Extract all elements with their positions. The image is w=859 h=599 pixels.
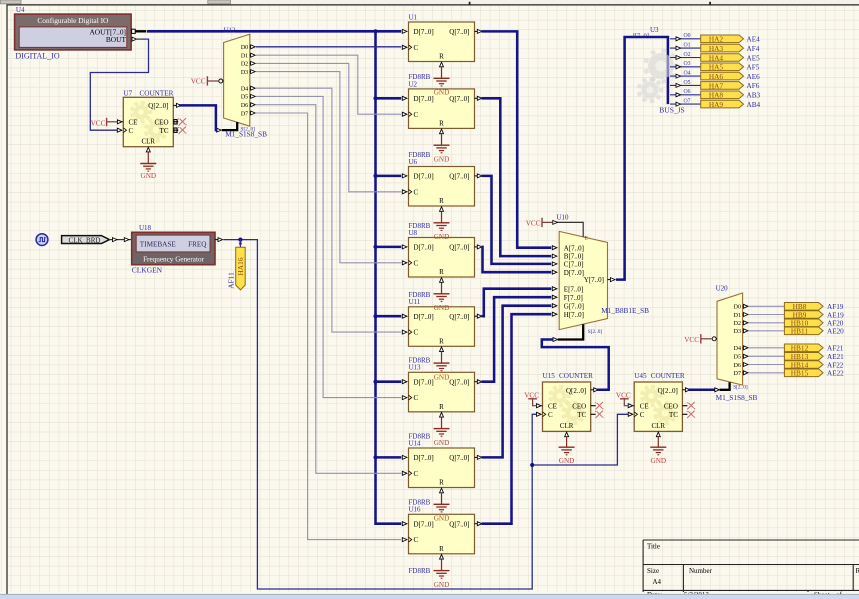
pin D[7..0] of U8 [402,245,407,249]
svg-text:D5: D5 [241,95,248,101]
mux U10 (M1_B8B1E_SB) body [559,231,607,329]
designator U14 [409,439,422,447]
svg-text:CEO: CEO [664,402,678,410]
designator U45 COUNTER [634,372,685,380]
svg-text:AF21: AF21 [827,345,844,353]
pin O5 of U3 [670,80,701,88]
flip-flop U13 (FD8RB) body [409,372,475,412]
pin CLR of U45 [651,422,665,437]
svg-text:R: R [439,338,444,346]
bus branch to U14 D [376,456,402,459]
wire U20 D6 to port HB14 [749,364,785,366]
bus U45 Q to U20 S [688,389,714,392]
pin Q[7..0] of U1 [475,29,482,33]
port CLK_BRD [62,236,110,245]
pin R of U13 [440,413,444,418]
pin S[2..0] of U12 [217,122,256,132]
pin C[7..0] of U10 [552,261,583,269]
svg-text:COUNTER: COUNTER [651,372,685,380]
bus U11 Q to U10 E [482,289,552,317]
pin O4 of U3 [670,71,701,79]
pin D6 of U12 [241,103,255,109]
svg-text:CE: CE [129,118,138,126]
svg-text:C: C [414,111,419,119]
svg-text:R: R [439,545,444,553]
svg-text:D[7..0]: D[7..0] [564,269,584,277]
net label AE5 [747,54,761,62]
junction at FREQ/HA16 [238,238,242,242]
svg-text:CLK_BRD: CLK_BRD [69,236,101,244]
svg-text:C: C [414,188,419,196]
sheet-symbol U18 (Frequency Generator) [132,232,215,264]
svg-text:VCC: VCC [526,219,541,227]
label FD8RB above U13 [409,357,431,365]
designator U1 [409,13,418,21]
pin D0 of U12 [241,45,255,51]
net label AF5 [747,64,760,72]
pin D5 of U12 [241,94,255,100]
flip-flop U8 (FD8RB) body [409,238,475,278]
pin R of U14 [440,488,444,493]
power VCC for U20 [684,334,712,344]
svg-text:AF11: AF11 [227,272,236,289]
svg-text:AE22: AE22 [827,370,844,378]
net label AB4 [747,101,761,109]
junction at U13 D branch [373,380,377,384]
pin A[7..0] of U10 [552,244,584,252]
net label AF20 [827,320,844,328]
pin O0 of U3 [670,33,701,41]
svg-text:Y[7..0]: Y[7..0] [584,276,604,284]
svg-text:HA4: HA4 [709,53,724,62]
clock source icon [36,234,48,246]
svg-text:HA7: HA7 [709,81,724,90]
pin R of U11 [440,347,444,352]
bus branch to U13 D [376,380,402,383]
pin E of U12 (enable) [219,79,224,83]
svg-text:FD8RB: FD8RB [409,222,431,230]
pin C of U11 [402,330,411,335]
svg-text:CE: CE [640,402,649,410]
svg-text:F[7..0]: F[7..0] [564,294,583,302]
svg-text:U2: U2 [409,80,418,88]
svg-text:AB4: AB4 [747,101,761,109]
wire U12 select to U13 C [256,96,401,397]
wire CLK_BRD to U18 [109,238,131,242]
label M1_S1S8_SB of U20 [716,393,758,402]
label FD8RB above U2 [409,73,431,81]
power VCC for U45 [616,392,631,406]
pin TC of U7 [160,127,179,135]
svg-text:D4: D4 [241,87,248,93]
gnd below U1 [434,67,450,97]
pin R of U1 [440,62,444,67]
bus U16 Q to U10 H [482,314,552,524]
designator U10 [557,213,570,221]
pin CEO of U45 [664,402,688,410]
pin C of U15 [537,411,554,419]
flip-flop U11 (FD8RB) body [409,307,475,347]
flip-flop U14 (FD8RB) body [409,448,475,488]
designator U16 [409,506,422,514]
svg-text:Q[7..0]: Q[7..0] [449,520,469,528]
svg-text:C: C [548,411,553,419]
no-ERC mark on U15 CEO [595,402,604,409]
bus U15 Q to U10 S [542,340,609,390]
pin O2 of U3 [670,52,701,60]
svg-text:U20: U20 [716,284,729,292]
svg-text:U1: U1 [409,13,418,21]
pin G[7..0] of U10 [552,302,584,310]
svg-text:Title: Title [647,543,660,551]
gnd below U6 [434,212,450,242]
gnd below U13 [434,417,450,447]
pin AOUT[7..0] of U4 [132,29,147,33]
svg-text:AF22: AF22 [827,361,844,369]
svg-text:CLR: CLR [651,422,665,430]
pin CE of U15 [537,402,557,410]
pin CE of U45 [628,402,648,410]
port HB10 [784,319,823,328]
svg-text:D4: D4 [734,346,741,352]
wire U12 select to U11 C [256,88,401,332]
label BUS_JS [659,105,684,114]
gnd below U7 [140,152,156,180]
net label AB3 [747,92,761,100]
pin O7 of U3 [670,99,701,107]
svg-text:O0: O0 [684,33,691,39]
title block [643,540,859,599]
svg-text:HA2: HA2 [709,35,724,44]
power VCC for U15 [524,392,539,406]
svg-text:GND: GND [434,304,450,312]
svg-text:Q[7..0]: Q[7..0] [449,378,469,386]
svg-text:VCC: VCC [684,336,699,344]
svg-text:Q[2..0]: Q[2..0] [658,387,678,395]
port HA2 [701,35,744,44]
port HB15 [784,369,823,378]
pin CLR of U15 [560,422,574,437]
label FD8RB above U8 [409,222,431,230]
svg-text:HB11: HB11 [791,327,809,336]
svg-text:FREQ: FREQ [188,240,207,248]
pin O1 of U3 [670,43,701,51]
net label AF22 [827,361,844,369]
bus U8 Q to U10 D [482,247,552,272]
svg-text:Q[2..0]: Q[2..0] [148,102,168,110]
svg-text:AB3: AB3 [747,92,761,100]
svg-text:HA9: HA9 [709,100,724,109]
svg-text:AE19: AE19 [827,311,844,319]
pin S[2..0] of U10 [553,324,602,341]
svg-text:Q[7..0]: Q[7..0] [449,95,469,103]
svg-text:D0: D0 [241,45,248,51]
pin C of U16 [402,537,411,542]
svg-text:GND: GND [434,581,450,589]
svg-text:I[7..0]: I[7..0] [633,32,649,39]
net label AE21 [827,353,844,361]
pin C of U45 [628,411,645,419]
svg-text:AE4: AE4 [747,36,761,44]
pin D3 of U12 [241,70,255,76]
pin D7 of U20 [734,371,748,377]
designator U20 [716,284,729,292]
gnd below U45 [650,437,666,465]
pin CLR of U7 [141,138,155,152]
pin O3 of U3 [670,61,701,69]
pin Q[7..0] of U13 [475,380,482,384]
bus U1 Q to U10 A [482,31,552,247]
svg-text:HA5: HA5 [709,63,724,72]
svg-text:D3: D3 [241,70,248,76]
wire U20 D2 to port HB10 [749,322,785,324]
gnd below U8 [434,283,450,313]
svg-text:M1_S1S8_SB: M1_S1S8_SB [716,393,758,402]
svg-text:U45: U45 [634,372,647,380]
svg-text:E[7..0]: E[7..0] [564,285,583,293]
svg-text:A[7..0]: A[7..0] [564,244,584,252]
svg-text:R: R [439,197,444,205]
flip-flop U16 (FD8RB) body [409,514,475,554]
wire U12 select to U2 C [256,55,401,114]
svg-text:HA16: HA16 [236,257,245,275]
svg-text:D[7..0]: D[7..0] [414,173,434,181]
pin R of U8 [440,278,444,283]
label FD8RB above U14 [409,432,431,440]
label FD8RB above U16 [409,499,431,507]
pin Q[7..0] of U11 [475,314,482,318]
svg-text:U18: U18 [139,224,152,232]
svg-text:AE20: AE20 [827,328,844,336]
svg-text:C: C [414,44,419,52]
svg-text:Q[7..0]: Q[7..0] [449,28,469,36]
wire U12 select to U1 C [256,46,401,48]
svg-text:DIGITAL_IO: DIGITAL_IO [15,51,59,60]
svg-text:U6: U6 [409,158,418,166]
port HB13 [784,352,823,361]
bus branch to U6 D [376,175,402,178]
bus AOUT vertical trunk [376,31,402,523]
svg-text:D7: D7 [734,371,741,377]
svg-text:AF20: AF20 [827,320,844,328]
svg-text:U12: U12 [224,27,237,35]
svg-text:D[7..0]: D[7..0] [414,244,434,252]
pin D[7..0] of U11 [402,314,407,318]
pin D2 of U20 [734,321,748,327]
pin C of U1 [402,45,411,50]
svg-text:M1_S1S8_SB: M1_S1S8_SB [225,129,267,138]
svg-text:R: R [856,567,859,575]
svg-text:CEO: CEO [572,402,586,410]
pin D0 of U20 [734,304,748,310]
pin D[7..0] of U1 [402,29,407,33]
pin C of U8 [402,260,411,265]
pin D[7..0] of U2 [402,96,407,100]
port HB12 [784,344,823,353]
svg-text:Number: Number [689,567,713,575]
svg-text:FD8RB: FD8RB [409,73,431,81]
svg-text:CLR: CLR [141,138,155,146]
gnd below U14 [434,493,450,523]
pin D4 of U12 [241,86,255,92]
svg-text:C: C [414,259,419,267]
svg-text:Configurable Digital IO: Configurable Digital IO [37,16,109,25]
pin CE of U7 [117,118,137,126]
svg-text:AF6: AF6 [747,82,760,90]
svg-text:U3: U3 [650,26,659,34]
port HA8 [701,91,744,100]
counter U15 body [543,382,591,431]
pin Q[7..0] of U2 [475,96,482,100]
svg-text:U16: U16 [409,506,422,514]
svg-text:C: C [129,127,134,135]
sheet-symbol U4 (Configurable Digital IO) [15,14,132,50]
pin D[7..0] of U13 [402,380,407,384]
no-ERC mark on U7 TC [178,127,187,134]
svg-text:R: R [439,120,444,128]
junction at counter clock split [530,463,534,467]
label FD8RB below U16 [409,567,431,575]
bus branch to U11 D [376,315,402,318]
port HA9 [701,100,744,109]
pin R of U2 [440,129,444,134]
pin Q[7..0] of U14 [475,455,482,459]
svg-text:COUNTER: COUNTER [140,89,174,97]
pin C of U2 [402,112,411,117]
svg-text:U7: U7 [123,89,132,97]
svg-text:GND: GND [434,233,450,241]
svg-text:COUNTER: COUNTER [559,372,593,380]
svg-text:R: R [439,403,444,411]
designator U6 [409,158,418,166]
net label AF4 [747,45,760,53]
svg-text:C: C [414,470,419,478]
svg-text:R: R [439,268,444,276]
label M1_B8B1E_SB of U10 [601,306,649,315]
svg-text:TIMEBASE: TIMEBASE [140,240,177,248]
designator U13 [409,364,422,372]
label FD8RB above U6 [409,151,431,159]
svg-text:FD8RB: FD8RB [409,432,431,440]
svg-text:AE21: AE21 [827,353,844,361]
svg-text:D7: D7 [241,111,248,117]
wire branch to U45 C [532,414,628,465]
wire HA16 port stub [239,240,243,248]
svg-text:GND: GND [434,515,450,523]
svg-text:Q[2..0]: Q[2..0] [566,387,586,395]
pin CEO of U15 [572,402,596,410]
wire U12 select to U8 C [256,72,401,263]
svg-text:O5: O5 [684,80,691,86]
pin C of U7 [117,127,133,135]
svg-text:O6: O6 [684,89,691,95]
wire U20 D1 to port HB9 [749,314,785,316]
svg-text:M1_B8B1E_SB: M1_B8B1E_SB [601,306,649,315]
pin F[7..0] of U10 [552,294,583,302]
port HA3 [701,44,744,53]
svg-text:FD8RB: FD8RB [409,567,431,575]
pin C of U13 [402,395,411,400]
svg-text:R: R [439,479,444,487]
wire U20 D5 to port HB13 [749,355,785,357]
label FD8RB above U11 [409,291,431,299]
svg-text:D3: D3 [734,329,741,335]
bus U6 Q to U10 C [482,176,552,264]
svg-text:Q[7..0]: Q[7..0] [449,173,469,181]
counter U45 body [634,382,682,431]
pin CEO of U7 [155,118,179,126]
svg-text:D1: D1 [241,54,248,60]
power VCC for U12 [191,76,219,85]
svg-text:D[7..0]: D[7..0] [414,378,434,386]
svg-text:O2: O2 [684,52,691,58]
gnd below U15 [559,437,575,465]
label CLKGEN [132,265,163,274]
svg-text:CEO: CEO [155,118,169,126]
junction at U6 D branch [373,174,377,178]
designator U8 [409,229,418,237]
svg-text:GND: GND [141,172,157,180]
wire U12 select to U14 C [256,105,401,474]
svg-text:HA6: HA6 [709,72,724,81]
svg-text:GND: GND [434,374,450,382]
svg-text:O1: O1 [684,43,691,49]
bus branch to U8 D [376,246,402,249]
svg-text:BOUT: BOUT [106,35,127,44]
svg-text:G[7..0]: G[7..0] [564,302,584,310]
svg-text:GND: GND [434,439,450,447]
svg-text:A4: A4 [653,578,662,586]
port HA16 [236,247,246,290]
no-ERC mark on U45 TC [687,411,696,418]
pin D[7..0] of U10 [552,269,584,277]
pin B[7..0] of U10 [552,253,583,261]
svg-text:H[7..0]: H[7..0] [564,311,584,319]
no-ERC mark on U7 CEO [178,118,187,125]
svg-text:HA8: HA8 [709,91,724,100]
power VCC for U7 [91,118,117,128]
net label AF11 [227,272,236,289]
pin E enable of U10 [553,220,589,241]
port HB14 [784,360,823,369]
svg-text:O3: O3 [684,61,691,67]
svg-text:AF19: AF19 [827,303,844,311]
svg-text:D[7..0]: D[7..0] [414,28,434,36]
label M1_S1S8_SB of U12 [225,129,267,138]
wire U20 D0 to port HB8 [749,305,785,307]
port HA7 [701,81,744,90]
pin D6 of U20 [734,363,748,369]
svg-text:U14: U14 [409,439,422,447]
gnd below U2 [434,134,450,164]
bus-joiner U3 gear watermark [637,48,679,103]
pin H[7..0] of U10 [552,311,584,319]
bus U10 Y to U3 I[7..0] [616,37,668,280]
svg-text:S[2..0]: S[2..0] [588,329,603,335]
junction at U2 D branch [373,96,377,100]
designator U2 [409,80,418,88]
bus U2 Q to U10 B [482,98,552,256]
designator U7 COUNTER [123,89,173,97]
svg-text:GND: GND [434,156,450,164]
pin D7 of U12 [241,111,255,117]
mux U12 (M1_S1S8_SB) body [224,34,250,126]
svg-text:D0: D0 [734,305,741,311]
svg-text:D[7..0]: D[7..0] [414,520,434,528]
designator U4 [16,6,25,14]
svg-text:Frequency Generator: Frequency Generator [143,255,204,263]
svg-text:TC: TC [577,411,586,419]
